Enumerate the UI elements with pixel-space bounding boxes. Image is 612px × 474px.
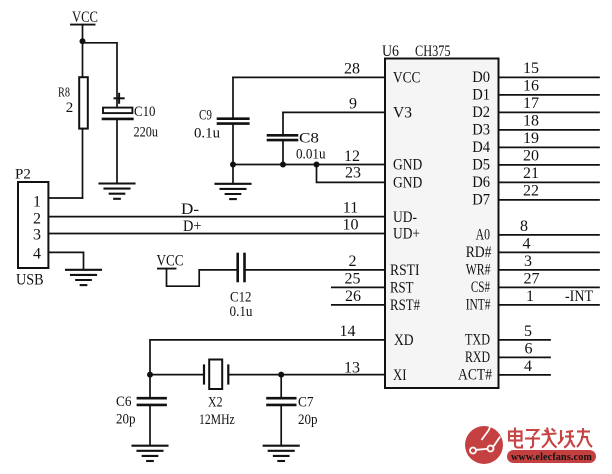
svg-text:14: 14 <box>340 323 356 340</box>
wire D5 bus / pin number 20 <box>499 147 600 165</box>
svg-text:3: 3 <box>524 253 532 270</box>
svg-text:10: 10 <box>343 217 359 234</box>
svg-text:WR#: WR# <box>466 262 491 279</box>
watermark text zi (child) <box>525 430 540 448</box>
svg-text:X2: X2 <box>208 395 223 411</box>
watermark text fa (emit) <box>542 428 557 448</box>
capacitor C10 220u (polarized) <box>103 94 158 141</box>
svg-text:4: 4 <box>524 358 532 375</box>
svg-text:18: 18 <box>523 112 539 129</box>
node junction (C9 / gnd rail) <box>230 162 236 168</box>
watermark logo elecfans <box>465 421 503 465</box>
wire <box>82 25 84 43</box>
wire D1 bus / pin number 16 <box>499 77 600 95</box>
svg-text:8: 8 <box>520 218 528 235</box>
ground (P2 pin4) <box>66 270 101 285</box>
svg-text:GND: GND <box>393 157 422 174</box>
svg-text:VCC: VCC <box>72 9 98 26</box>
svg-text:RSTI: RSTI <box>390 262 420 279</box>
wire D7 bus / pin number 22 <box>499 182 600 200</box>
svg-text:-INT: -INT <box>565 288 593 305</box>
svg-text:C9: C9 <box>199 108 212 124</box>
power VCC (middle) <box>157 253 184 270</box>
svg-text:D0: D0 <box>472 69 490 86</box>
svg-text:0.1u: 0.1u <box>230 304 253 320</box>
wire pin 25 stub <box>332 286 385 288</box>
svg-text:25: 25 <box>345 270 361 287</box>
ground (C6) <box>133 446 168 461</box>
svg-text:0.01u: 0.01u <box>296 147 326 163</box>
capacitor C6 20p <box>116 375 166 446</box>
svg-text:VCC: VCC <box>393 70 420 87</box>
svg-text:19: 19 <box>523 130 539 147</box>
wire net RSTI <box>246 269 385 271</box>
svg-text:U6: U6 <box>382 43 399 60</box>
svg-text:XD: XD <box>394 332 414 349</box>
svg-text:D-: D- <box>181 201 199 218</box>
ground (C7) <box>264 446 299 461</box>
svg-text:UD+: UD+ <box>393 226 420 243</box>
wire D6 bus / pin number 21 <box>499 165 600 183</box>
watermark text shao (burn) <box>558 430 575 448</box>
node junction (XTAL left) <box>147 372 153 378</box>
wire D3 bus / pin number 18 <box>499 112 600 129</box>
svg-text:ACT#: ACT# <box>458 367 492 384</box>
svg-text:4: 4 <box>523 235 531 252</box>
wire <box>167 269 237 287</box>
wire <box>150 374 204 376</box>
svg-text:USB: USB <box>16 271 44 288</box>
ground (C10) <box>100 184 135 199</box>
svg-text:VCC: VCC <box>157 253 184 270</box>
svg-text:RST#: RST# <box>390 297 420 314</box>
svg-text:11: 11 <box>343 200 358 217</box>
wire <box>228 374 281 376</box>
wire D4 bus / pin number 19 <box>499 130 600 148</box>
watermark text dian (electron) <box>509 428 592 448</box>
node junction (C8 / gnd rail) <box>280 162 286 168</box>
wire <box>82 41 84 77</box>
wire <box>83 43 118 108</box>
wire RXD / pin number 6 <box>499 340 551 357</box>
svg-text:CS#: CS# <box>471 279 490 296</box>
wire pin 28 VCC <box>233 76 385 78</box>
capacitor C7 20p <box>268 375 318 446</box>
svg-text:XI: XI <box>393 367 407 384</box>
wire ACT# / pin number 4 <box>499 358 551 375</box>
svg-text:15: 15 <box>523 60 539 77</box>
svg-text:0.1u: 0.1u <box>194 126 220 142</box>
svg-text:27: 27 <box>524 270 540 287</box>
capacitor C9 0.1u <box>194 77 248 164</box>
svg-text:2: 2 <box>349 253 357 270</box>
wire TXD / pin number 5 <box>499 323 551 340</box>
svg-text:16: 16 <box>523 77 539 94</box>
node junction (pin23 branch) <box>314 162 320 168</box>
svg-text:C6: C6 <box>116 394 132 410</box>
resistor R8 <box>58 77 88 128</box>
wire net XD <box>150 340 385 375</box>
svg-text:28: 28 <box>344 60 360 77</box>
svg-text:D2: D2 <box>472 104 490 121</box>
svg-text:www.elecfans.com: www.elecfans.com <box>511 452 592 463</box>
svg-text:1: 1 <box>526 288 534 305</box>
svg-text:RD#: RD# <box>466 244 492 261</box>
node junction (XTAL right) <box>278 372 284 378</box>
svg-text:D7: D7 <box>472 192 490 209</box>
svg-text:3: 3 <box>33 227 41 244</box>
svg-text:2: 2 <box>66 100 74 116</box>
power VCC (top left) <box>71 9 98 26</box>
svg-text:2: 2 <box>33 211 41 228</box>
svg-text:23: 23 <box>345 165 361 182</box>
wire WR# / pin number 3 <box>499 253 600 270</box>
svg-text:12MHz: 12MHz <box>199 412 235 428</box>
node junction VCC <box>80 38 86 44</box>
svg-text:20p: 20p <box>298 412 318 428</box>
wire pin1 stub <box>48 197 82 199</box>
svg-text:D+: D+ <box>183 218 202 235</box>
svg-text:20: 20 <box>523 147 539 164</box>
svg-text:C8: C8 <box>299 131 319 147</box>
svg-text:C10: C10 <box>134 104 156 120</box>
svg-text:21: 21 <box>523 165 539 182</box>
wire A0 / pin number 8 <box>499 218 600 235</box>
wire INT# / pin number 1 <box>499 288 600 305</box>
svg-text:INT#: INT# <box>466 297 491 314</box>
svg-text:A0: A0 <box>476 227 490 244</box>
svg-text:D5: D5 <box>472 157 490 174</box>
watermark text you (friend) <box>577 428 592 447</box>
capacitor C12 0.1u <box>230 254 253 320</box>
wire net D- <box>48 216 385 218</box>
svg-text:9: 9 <box>349 95 357 112</box>
svg-text:CH375: CH375 <box>415 43 451 60</box>
svg-text:RXD: RXD <box>465 349 490 366</box>
wire pin 26 stub <box>332 304 385 306</box>
svg-text:GND: GND <box>393 175 422 192</box>
IC U6 CH375 <box>382 43 499 388</box>
connector P2 USB <box>15 167 48 289</box>
svg-text:D3: D3 <box>472 122 490 139</box>
wire net XI <box>281 374 385 376</box>
svg-text:D6: D6 <box>472 174 490 191</box>
svg-text:UD-: UD- <box>393 209 417 226</box>
svg-text:P2: P2 <box>15 167 31 183</box>
wire D0 bus / pin number 15 <box>499 60 600 78</box>
ground (rail) <box>216 165 251 200</box>
svg-text:26: 26 <box>345 288 361 305</box>
wire RD# / pin number 4 <box>499 235 600 252</box>
svg-text:6: 6 <box>525 340 533 357</box>
svg-text:C7: C7 <box>298 395 314 411</box>
wire <box>116 119 118 184</box>
svg-text:V3: V3 <box>393 105 412 122</box>
svg-text:20p: 20p <box>116 412 136 428</box>
svg-text:22: 22 <box>523 182 539 199</box>
svg-text:D1: D1 <box>472 87 490 104</box>
svg-text:220u: 220u <box>134 125 159 141</box>
svg-text:13: 13 <box>344 360 360 377</box>
svg-text:12: 12 <box>344 148 360 165</box>
wire pin 23 branch <box>317 165 386 183</box>
capacitor C8 0.01u <box>268 112 326 164</box>
svg-text:5: 5 <box>524 323 532 340</box>
svg-text:R8: R8 <box>58 86 70 101</box>
svg-text:D4: D4 <box>472 139 490 156</box>
svg-text:1: 1 <box>33 194 41 211</box>
wire D2 bus / pin number 17 <box>499 95 600 113</box>
svg-text:RST: RST <box>390 280 414 297</box>
wire pin 9 V3 <box>283 111 385 113</box>
wire net D+ <box>48 233 385 235</box>
watermark banner www.elecfans.com <box>507 450 596 463</box>
wire CS# / pin number 27 <box>499 270 600 287</box>
svg-text:TXD: TXD <box>465 332 490 349</box>
wire pin4 stub <box>48 252 83 269</box>
svg-text:4: 4 <box>33 246 41 263</box>
wire gnd rail pin 12 <box>233 164 385 166</box>
crystal X2 12MHz <box>199 360 235 429</box>
svg-text:17: 17 <box>523 95 539 112</box>
wire <box>82 129 84 198</box>
